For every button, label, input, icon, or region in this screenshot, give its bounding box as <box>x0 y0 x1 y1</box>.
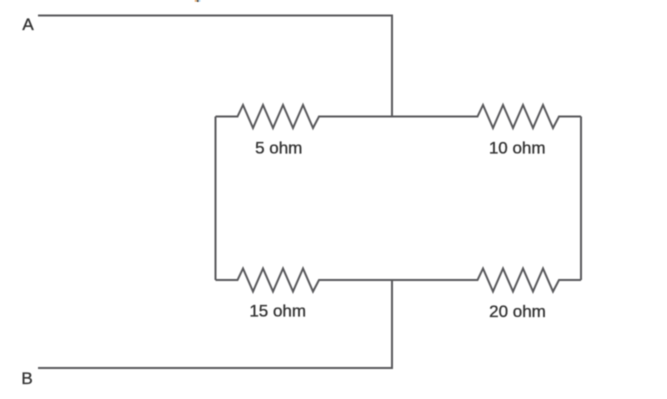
svg-text:20 ohm: 20 ohm <box>489 302 546 321</box>
svg-text:10 ohm: 10 ohm <box>489 139 546 158</box>
svg-text:B: B <box>21 369 32 388</box>
svg-text:A: A <box>22 15 34 34</box>
svg-text:15 ohm: 15 ohm <box>249 302 306 321</box>
svg-text:5 ohm: 5 ohm <box>255 139 302 158</box>
